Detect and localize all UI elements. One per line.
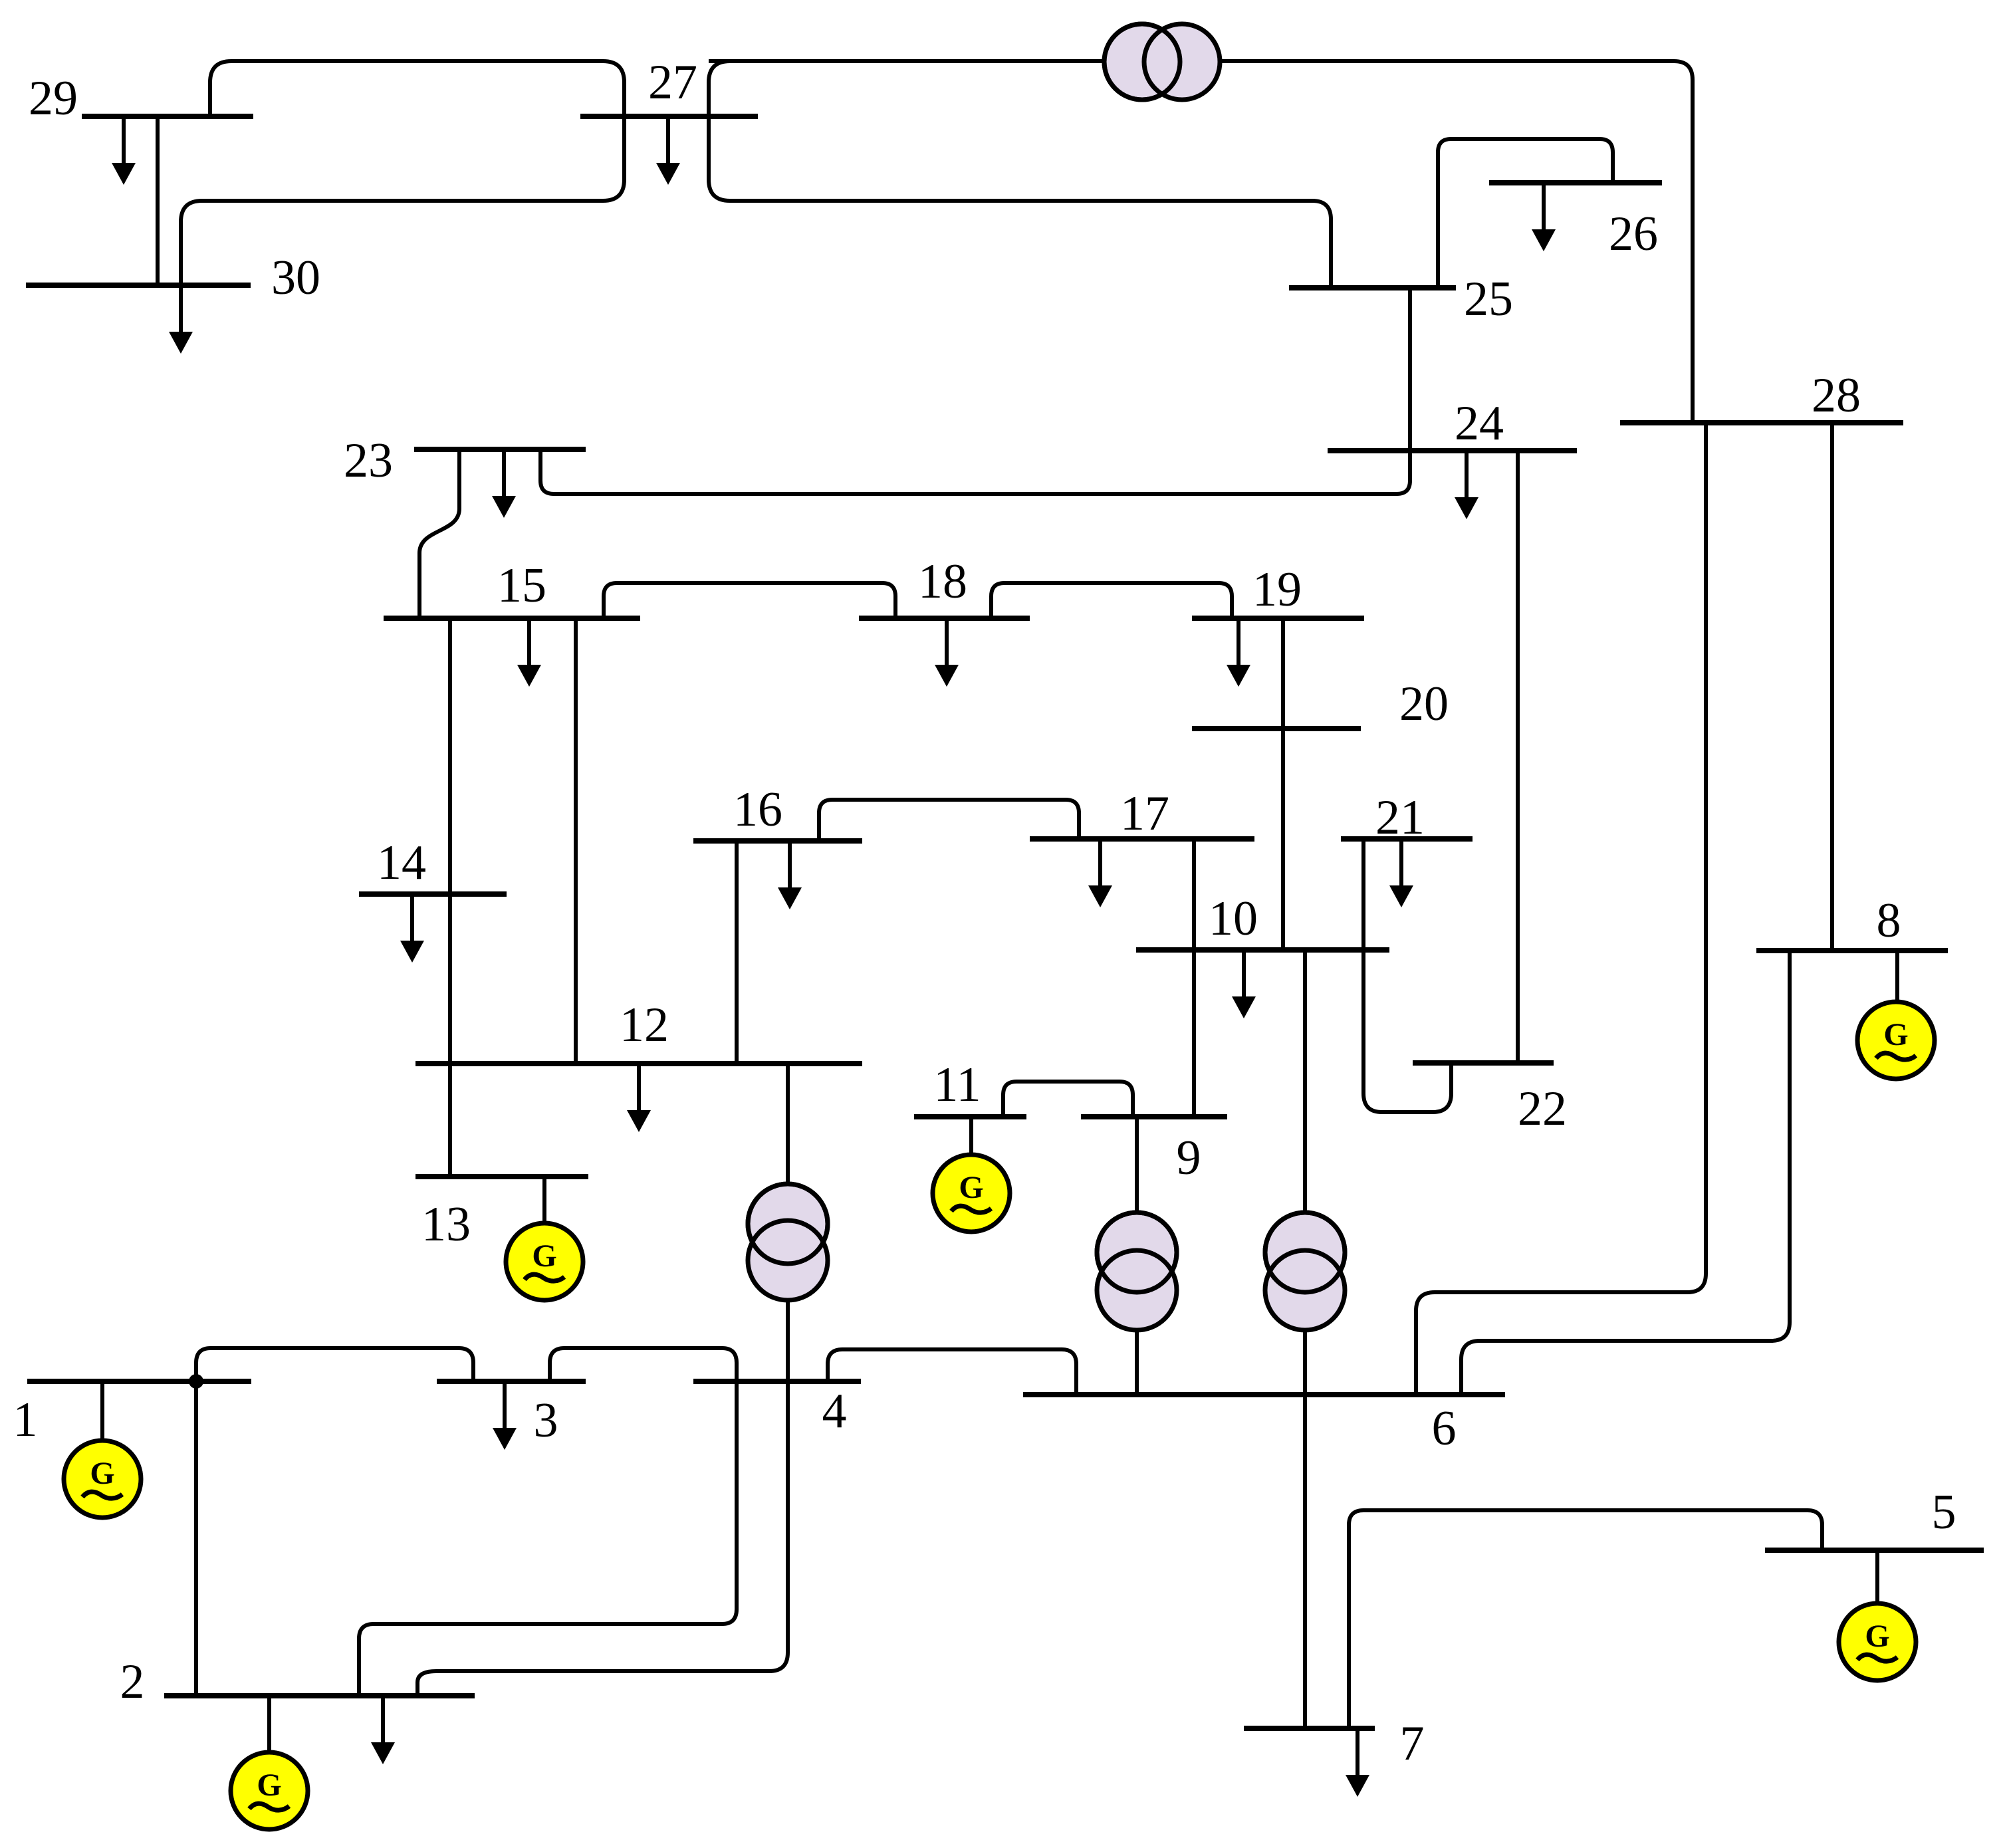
bus 29 [82, 114, 253, 119]
generator G13 [506, 1177, 583, 1300]
wire 28-6 [1416, 423, 1706, 1395]
svg-text:22: 22 [1518, 1082, 1567, 1136]
wire 1-3 [196, 1348, 473, 1381]
bus 8 [1756, 948, 1948, 953]
wire 25-24-23 [540, 288, 1410, 494]
svg-text:24: 24 [1455, 396, 1504, 451]
wire 23-15 S-curve [419, 449, 459, 618]
load arrow bus 23 [492, 449, 516, 518]
bus 4 [693, 1379, 861, 1384]
wire 3-4 [550, 1348, 737, 1381]
wire 15-14-12-13 vertical [448, 618, 452, 1177]
bus 20 [1192, 726, 1361, 731]
svg-text:18: 18 [918, 554, 967, 609]
bus 16 [693, 838, 862, 844]
wire 8-6 [1461, 951, 1790, 1395]
svg-text:26: 26 [1609, 207, 1658, 261]
wire 18-19 [991, 583, 1232, 618]
wire 5-7 [1349, 1510, 1822, 1728]
load arrow bus 14 [400, 894, 424, 963]
svg-text:10: 10 [1209, 891, 1258, 946]
bus 19 [1192, 616, 1364, 621]
svg-text:4: 4 [822, 1384, 847, 1439]
bus 11 [914, 1114, 1026, 1119]
svg-text:1: 1 [13, 1393, 38, 1447]
wire 28-8 vertical [1830, 423, 1834, 951]
load arrow bus 17 [1088, 839, 1112, 907]
wire 11-9 loop [1003, 1082, 1133, 1117]
bus 12 [415, 1061, 862, 1066]
bus 1 [27, 1379, 251, 1384]
wire 15-12 vertical [574, 618, 578, 1064]
wire 27-28 via transformer [709, 61, 1693, 423]
transformer 6-10 [1265, 1213, 1345, 1330]
bus 2 [164, 1693, 475, 1698]
svg-text:21: 21 [1375, 790, 1425, 845]
svg-text:16: 16 [733, 782, 782, 837]
wire 2-4 [359, 1381, 737, 1696]
generator G11 [933, 1117, 1010, 1232]
svg-text:12: 12 [620, 998, 669, 1052]
wire 1-2 vertical [194, 1381, 198, 1696]
bus 18 [859, 616, 1030, 621]
bus 13 [415, 1174, 588, 1179]
TRANSFORMERS [748, 24, 1345, 1330]
wire 21-10-22 U loop [1363, 839, 1451, 1112]
transformer 6-9 [1097, 1213, 1177, 1330]
svg-text:8: 8 [1877, 893, 1901, 948]
load arrow bus 3 [493, 1381, 517, 1450]
bus 27 [580, 114, 758, 119]
bus 26 [1489, 180, 1662, 185]
bus 9 [1081, 1114, 1227, 1119]
svg-text:17: 17 [1120, 786, 1169, 841]
bus 30 [26, 283, 251, 288]
svg-text:23: 23 [344, 433, 393, 488]
wire 17-10-9 vertical [1192, 839, 1196, 1117]
svg-text:7: 7 [1400, 1716, 1425, 1771]
svg-text:3: 3 [534, 1393, 558, 1448]
generator G8 [1857, 951, 1935, 1079]
bus 10 [1136, 947, 1389, 953]
load arrow bus 19 [1227, 618, 1250, 687]
load arrow bus 26 [1532, 183, 1556, 251]
svg-text:6: 6 [1432, 1401, 1457, 1456]
load arrow bus 29 [112, 116, 136, 185]
bus 23 [414, 447, 586, 452]
svg-text:25: 25 [1464, 272, 1513, 326]
svg-text:14: 14 [377, 836, 426, 890]
bus 6 [1023, 1392, 1505, 1397]
bus 17 [1030, 836, 1254, 842]
svg-text:11: 11 [933, 1058, 981, 1112]
bus 15 [384, 616, 640, 621]
load arrow bus 24 [1455, 451, 1478, 519]
svg-text:28: 28 [1812, 368, 1861, 423]
svg-text:5: 5 [1932, 1485, 1956, 1540]
bus 5 [1765, 1548, 1984, 1553]
svg-text:15: 15 [497, 558, 546, 613]
bus 25 [1289, 285, 1456, 290]
wire 16-12 vertical [735, 841, 739, 1064]
bus 21 [1341, 836, 1473, 842]
wire 4-6 [828, 1349, 1076, 1395]
load arrow bus 30 [169, 285, 193, 354]
svg-text:19: 19 [1252, 562, 1302, 617]
wire 25-26 loop [1438, 139, 1613, 288]
generator G1 [64, 1381, 141, 1518]
bus 24 [1328, 448, 1577, 453]
load arrow bus 2 [371, 1696, 395, 1764]
wire 15-18 [604, 583, 895, 618]
svg-text:2: 2 [120, 1655, 145, 1709]
bus 22 [1413, 1060, 1554, 1066]
bus 3 [437, 1379, 586, 1384]
generator G5 [1839, 1550, 1916, 1680]
svg-text:30: 30 [271, 251, 320, 305]
wire 29-30 vertical [156, 116, 160, 285]
load arrow bus 15 [517, 618, 541, 687]
svg-text:27: 27 [648, 55, 697, 110]
wire 12-transformer-4-2 [417, 1064, 788, 1696]
load arrow bus 21 [1389, 839, 1413, 907]
node junction at bus 1 [189, 1374, 203, 1389]
wire 16-17 [819, 800, 1079, 841]
transformer 4-12 [748, 1184, 828, 1300]
wire 29-27 top and down to 27-30 horizontal [181, 61, 624, 285]
svg-text:13: 13 [421, 1197, 471, 1252]
load arrow bus 18 [935, 618, 959, 687]
svg-text:20: 20 [1399, 677, 1449, 731]
bus 14 [359, 891, 507, 897]
wire 10-6-7 via transformer [1303, 950, 1307, 1728]
bus 28 [1620, 420, 1903, 425]
wire 24-22 vertical [1516, 451, 1520, 1063]
svg-text:9: 9 [1177, 1131, 1201, 1185]
svg-text:29: 29 [29, 71, 78, 126]
load arrow bus 10 [1232, 950, 1256, 1018]
load arrow bus 7 [1346, 1728, 1369, 1797]
wire 19-20-10 vertical [1281, 618, 1285, 950]
wire 9-6 via transformer [1135, 1117, 1139, 1395]
wire 27 right loop down to 25 [709, 61, 1331, 288]
load arrow bus 12 [627, 1064, 651, 1132]
load arrow bus 16 [778, 841, 802, 909]
bus 7 [1244, 1726, 1375, 1731]
generator G2 [231, 1696, 308, 1829]
transformer 27-28 [1104, 24, 1220, 100]
load arrow bus 27 [656, 116, 680, 185]
